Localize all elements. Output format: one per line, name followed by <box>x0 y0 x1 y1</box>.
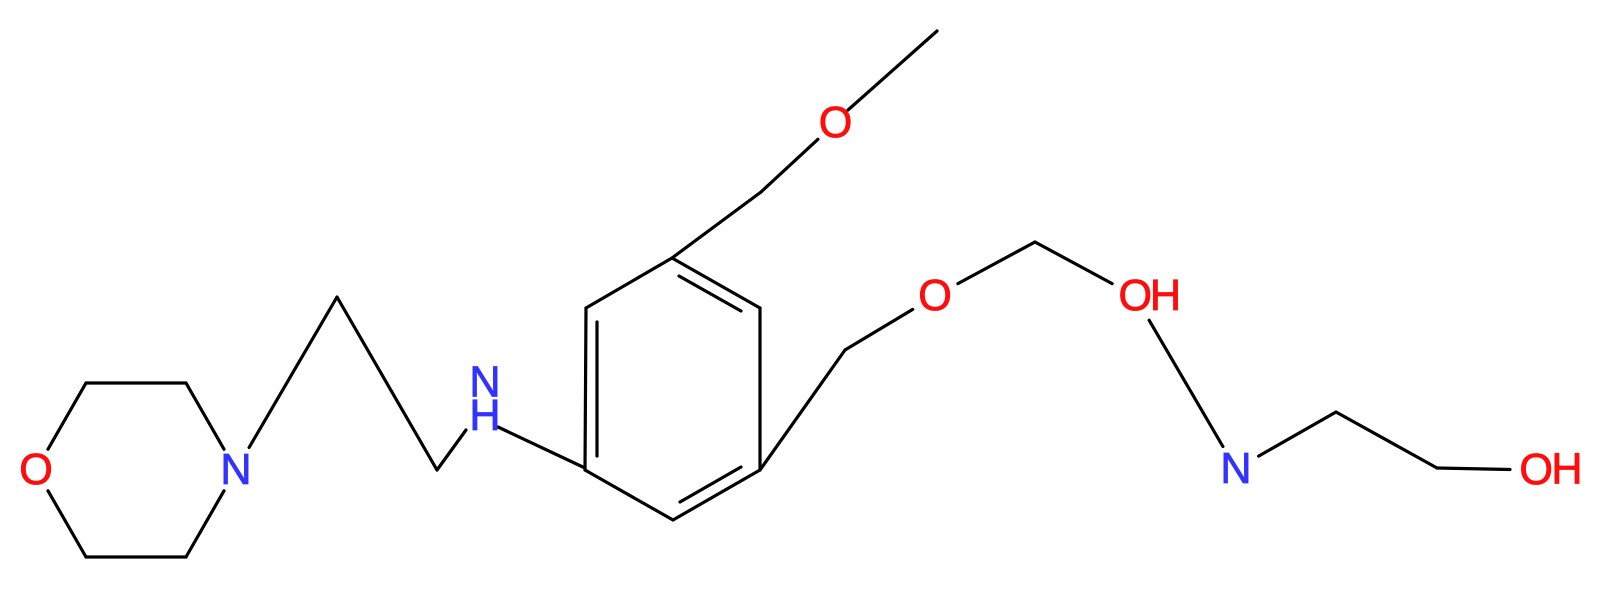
svg-text:O: O <box>918 272 952 320</box>
svg-text:O: O <box>819 99 853 147</box>
svg-text:N: N <box>1220 445 1251 493</box>
svg-text:H: H <box>1150 272 1181 320</box>
svg-text:O: O <box>19 446 53 494</box>
svg-text:H: H <box>1551 445 1582 493</box>
svg-text:O: O <box>1118 272 1152 320</box>
svg-text:H: H <box>469 392 500 440</box>
svg-text:N: N <box>220 446 251 494</box>
svg-text:O: O <box>1519 446 1553 494</box>
